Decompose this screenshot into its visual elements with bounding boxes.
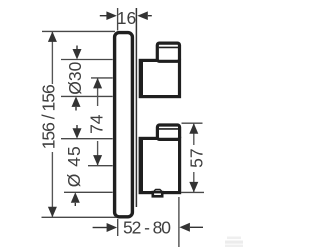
svg-text:52 - 80: 52 - 80	[123, 218, 171, 238]
ext line d30 top	[61, 59, 113, 61]
plate front rim line	[135, 8, 137, 207]
extension line wall (left of 16 dim)	[117, 8, 119, 31]
dim line 57	[193, 123, 195, 145]
arrow 57 bottom	[189, 182, 198, 193]
dim line 74	[97, 78, 99, 106]
svg-text:74: 74	[87, 114, 107, 134]
ext line 57 top	[182, 122, 203, 124]
arrow 52-80 right	[179, 223, 190, 232]
watermark	[225, 237, 243, 247]
upper handle grip step	[157, 43, 179, 61]
lower handle body	[140, 138, 179, 192]
centerline lower handle	[88, 165, 113, 167]
svg-text:Ø 45: Ø 45	[64, 146, 84, 187]
dim 16 left arrow	[100, 15, 107, 17]
arrow 156 bottom	[48, 207, 57, 218]
lower handle grip step	[157, 125, 179, 139]
dim line 156/156	[51, 31, 53, 84]
arrow 156 top	[48, 31, 57, 42]
ext line d45 bottom	[64, 191, 113, 193]
upper handle body	[140, 60, 179, 96]
ext line d30 bottom	[61, 95, 113, 97]
svg-text:Ø30: Ø30	[65, 61, 85, 94]
ext line 156 bottom	[42, 216, 117, 218]
upper grip seam line	[159, 46, 180, 48]
safety button	[153, 192, 162, 196]
svg-text:16: 16	[117, 8, 136, 28]
ext line 52-80 left	[117, 219, 119, 236]
arrow d30 top	[76, 46, 78, 56]
arrow d45 bottom	[71, 192, 80, 203]
svg-text:156 / 156: 156 / 156	[38, 84, 58, 149]
arrow 74 top	[93, 78, 102, 89]
safety button bump	[154, 190, 162, 192]
ext line d45 top	[61, 138, 113, 140]
upper handle collar line	[141, 60, 143, 97]
ext line 57 bottom	[181, 191, 204, 193]
lower grip seam line	[159, 128, 180, 130]
arrow 52-80 left	[93, 227, 107, 229]
arrow d30 bottom	[72, 96, 81, 107]
svg-text:57: 57	[186, 148, 206, 167]
arrow d45 top	[76, 125, 78, 130]
lower handle collar line	[141, 138, 143, 192]
ext line 52-80 right	[178, 197, 180, 247]
ext line 156 top	[42, 30, 115, 32]
dim 16 right arrow	[137, 11, 148, 20]
centerline upper handle	[91, 77, 113, 79]
arrow 57 top	[189, 123, 198, 134]
plate (escutcheon side view)	[115, 33, 133, 217]
arrow 74 bottom	[93, 155, 102, 166]
